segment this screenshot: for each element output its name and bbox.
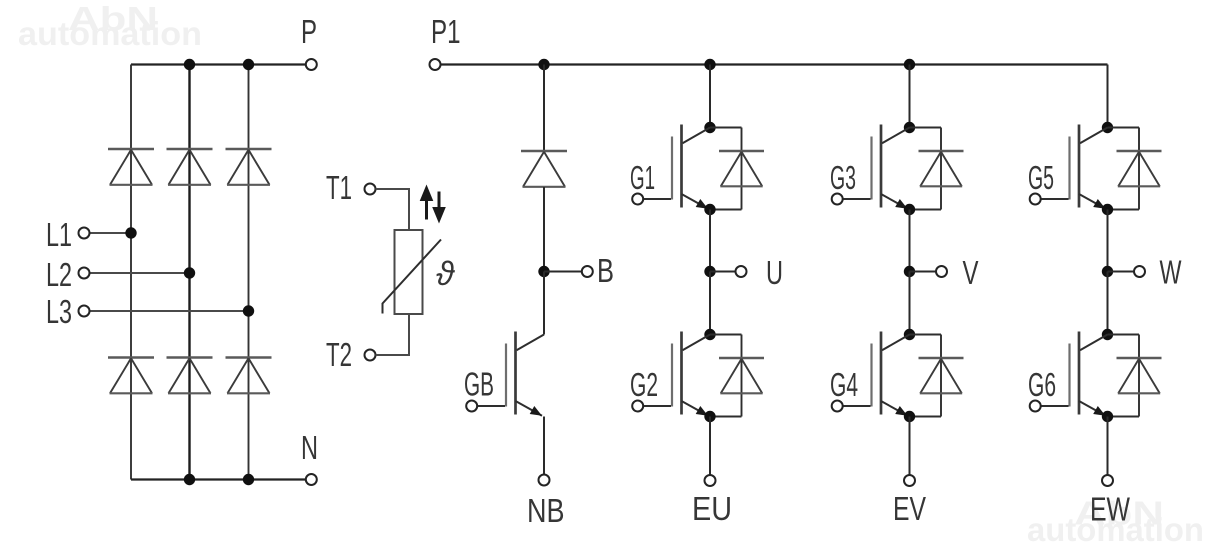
wire: P1 bus (top) bbox=[441, 63, 1108, 65]
diode D4 (rectifier bottom, leg1) bbox=[108, 358, 154, 394]
svg-text:EW: EW bbox=[1090, 491, 1131, 528]
node B junction dot bbox=[538, 266, 549, 277]
junction dot: Q6 collector bbox=[1102, 329, 1113, 340]
wire: chopper upper bbox=[543, 65, 545, 152]
terminal P1 bbox=[430, 59, 441, 70]
svg-text:G6: G6 bbox=[1028, 366, 1056, 403]
wire: Q1 emitter to node U bbox=[709, 210, 711, 272]
svg-text:B: B bbox=[597, 252, 614, 289]
watermark AbN automation (bottom right) bbox=[1027, 495, 1204, 549]
junction dot: N bus / leg2 bbox=[184, 474, 195, 485]
diode D8 (freewheel across Q1) bbox=[710, 128, 764, 210]
transistor Q7 (brake IGBT, gate GB) bbox=[466, 332, 544, 416]
junction dot: N bus / leg3 bbox=[243, 474, 254, 485]
wire: chopper emitter to NB bbox=[543, 417, 545, 475]
terminal NB bbox=[539, 475, 550, 486]
wire: node B lead bbox=[544, 271, 582, 273]
terminal P bbox=[306, 59, 317, 70]
diode D13 (freewheel across Q6) bbox=[1108, 335, 1162, 417]
terminal T1 bbox=[365, 184, 376, 195]
wire: L3 lead bbox=[90, 310, 249, 312]
wire: T2 to thermistor bbox=[376, 314, 410, 355]
wire: Q5 emitter to node W bbox=[1107, 210, 1109, 272]
wire: L1 lead bbox=[90, 232, 132, 234]
wire: node V to Q4 bbox=[909, 272, 911, 335]
watermark AbN automation (top left) bbox=[18, 0, 202, 52]
wire: Q6 emitter to EW bbox=[1107, 417, 1109, 475]
terminal N bbox=[306, 474, 317, 485]
thermistor RT1 diagonal stroke bbox=[383, 240, 442, 314]
diode D7 (chopper) bbox=[521, 151, 567, 187]
wire: rectifier leg 2 vertical bbox=[188, 65, 190, 480]
node W junction dot bbox=[1102, 266, 1113, 277]
svg-text:T1: T1 bbox=[326, 169, 352, 206]
junction dot: Q5 collector bbox=[1102, 122, 1113, 133]
terminal B bbox=[582, 266, 593, 277]
wire: rectifier leg 1 vertical bbox=[130, 65, 132, 480]
svg-text:L1: L1 bbox=[46, 216, 72, 253]
junction dot: Q1 emitter bbox=[704, 204, 715, 215]
svg-text:NB: NB bbox=[527, 492, 565, 529]
diode D1 (rectifier top, leg1) bbox=[108, 149, 154, 185]
diode D11 (freewheel across Q4) bbox=[910, 335, 964, 417]
junction dot: Q6 emitter bbox=[1102, 411, 1113, 422]
diode D5 (rectifier bottom, leg2) bbox=[167, 358, 213, 394]
transistor Q5 (gate G5) bbox=[1030, 125, 1108, 209]
transistor Q1 (gate G1) bbox=[632, 125, 710, 209]
transistor Q3 (gate G3) bbox=[832, 125, 910, 209]
terminal L3 bbox=[79, 306, 90, 317]
terminal L2 bbox=[79, 268, 90, 279]
svg-text:G1: G1 bbox=[630, 159, 655, 196]
svg-text:EV: EV bbox=[893, 490, 926, 527]
diode D12 (freewheel across Q5) bbox=[1108, 128, 1162, 210]
wire: P bus (top, rectifier) bbox=[131, 63, 306, 65]
diode D3 (rectifier top, leg3) bbox=[226, 149, 272, 185]
svg-text:automation: automation bbox=[18, 15, 202, 52]
junction dot: Q4 collector bbox=[904, 329, 915, 340]
svg-text:G4: G4 bbox=[830, 366, 858, 403]
diode D9 (freewheel across Q2) bbox=[710, 335, 764, 417]
junction dot: Q3 collector bbox=[904, 122, 915, 133]
svg-text:GB: GB bbox=[464, 366, 494, 403]
terminal EV bbox=[904, 475, 915, 486]
wire: node V lead bbox=[910, 271, 936, 273]
wire: node B to chopper IGBT bbox=[543, 272, 545, 335]
junction dot: P bus / leg2 bbox=[184, 59, 195, 70]
terminal W bbox=[1134, 266, 1145, 277]
wire: Q4 emitter to EV bbox=[909, 417, 911, 475]
junction dot: Q4 emitter bbox=[904, 411, 915, 422]
svg-text:G2: G2 bbox=[630, 366, 658, 403]
wire: chopper diode to node B bbox=[543, 187, 545, 272]
node U junction dot bbox=[704, 266, 715, 277]
terminal EU bbox=[705, 475, 716, 486]
svg-text:W: W bbox=[1160, 254, 1183, 291]
node V junction dot bbox=[904, 266, 915, 277]
wire: W leg top (bus corner) bbox=[1107, 65, 1109, 128]
wire: node W lead bbox=[1108, 271, 1134, 273]
junction dot: Q2 collector bbox=[704, 329, 715, 340]
junction dot: L1/leg1 bbox=[125, 227, 136, 238]
junction dot: bus / U leg bbox=[704, 59, 715, 70]
svg-text:G5: G5 bbox=[1028, 159, 1054, 196]
junction dot: P bus / leg3 bbox=[243, 59, 254, 70]
junction dot: Q5 emitter bbox=[1102, 204, 1113, 215]
wire: Q2 emitter to EU bbox=[709, 417, 711, 475]
wire: node U to Q2 bbox=[709, 272, 711, 335]
temperature arrow down bbox=[432, 192, 446, 224]
wire: V leg top bbox=[909, 65, 911, 128]
svg-text:V: V bbox=[963, 254, 979, 291]
junction dot: bus / chopper bbox=[538, 59, 549, 70]
junction dot: L3/leg3 bbox=[243, 305, 254, 316]
svg-text:U: U bbox=[766, 254, 783, 291]
wire: Q3 emitter to node V bbox=[909, 210, 911, 272]
wire: T1 to thermistor bbox=[376, 189, 410, 231]
temperature arrow up bbox=[420, 185, 434, 220]
transistor Q6 (gate G6) bbox=[1030, 332, 1108, 416]
junction dot: Q1 collector bbox=[704, 122, 715, 133]
diode D2 (rectifier top, leg2) bbox=[167, 149, 213, 185]
terminal EW bbox=[1102, 475, 1113, 486]
wire: node W to Q6 bbox=[1107, 272, 1109, 335]
wire: U leg top bbox=[709, 65, 711, 128]
diode D6 (rectifier bottom, leg3) bbox=[226, 358, 272, 394]
svg-text:L3: L3 bbox=[46, 293, 72, 330]
svg-text:ϑ: ϑ bbox=[436, 255, 455, 292]
svg-text:L2: L2 bbox=[46, 256, 72, 293]
junction dot: Q3 emitter bbox=[904, 204, 915, 215]
transistor Q2 (gate G2) bbox=[632, 332, 710, 416]
svg-text:N: N bbox=[301, 429, 318, 466]
svg-text:P: P bbox=[301, 13, 317, 50]
thermistor RT1 body bbox=[395, 230, 423, 314]
svg-text:G3: G3 bbox=[830, 159, 856, 196]
junction dot: Q2 emitter bbox=[704, 411, 715, 422]
svg-text:T2: T2 bbox=[326, 336, 352, 373]
svg-text:P1: P1 bbox=[431, 13, 461, 50]
svg-text:EU: EU bbox=[692, 490, 732, 527]
junction dot: bus / V leg bbox=[904, 59, 915, 70]
diode D10 (freewheel across Q3) bbox=[910, 128, 964, 210]
junction dot: L2/leg2 bbox=[184, 267, 195, 278]
terminal L1 bbox=[79, 228, 90, 239]
terminal V bbox=[936, 266, 947, 277]
wire: N bus (bottom, rectifier) bbox=[131, 478, 306, 480]
terminal U bbox=[736, 266, 747, 277]
terminal T2 bbox=[365, 350, 376, 361]
transistor Q4 (gate G4) bbox=[832, 332, 910, 416]
wire: rectifier leg 3 vertical bbox=[248, 65, 250, 480]
wire: L2 lead bbox=[90, 272, 190, 274]
wire: node U lead bbox=[710, 271, 735, 273]
